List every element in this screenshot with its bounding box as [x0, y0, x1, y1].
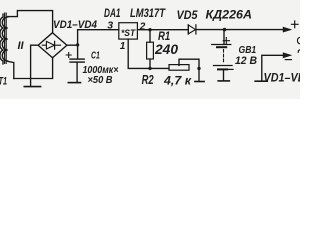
wire secondary top to bridge top vertex: [8, 11, 53, 33]
svg-text:240: 240: [154, 42, 179, 57]
node junction dot bridge+/C1: [76, 43, 79, 46]
wire VD5 cathode to output arrow: [196, 29, 289, 31]
right edge cut glyphs: [297, 38, 299, 53]
ground chassis R2: [195, 81, 204, 83]
battery polarity minus: [229, 68, 233, 70]
node junction dot battery tap: [223, 28, 227, 32]
wire bridge left vertex to ground: [31, 45, 38, 86]
svg-text:VD5: VD5: [177, 10, 199, 22]
svg-text:LM317T: LM317T: [130, 8, 166, 20]
resistor R2 wiper link: [179, 59, 199, 68]
regulator DA1 box: [119, 23, 138, 39]
svg-text:3: 3: [107, 19, 113, 31]
node junction dot R2 right: [197, 67, 200, 70]
wire R2 right to ground: [198, 68, 200, 81]
ground chassis battery: [218, 80, 229, 82]
svg-text:II: II: [18, 40, 25, 52]
label minus output: [285, 59, 291, 61]
ground chassis output minus: [255, 80, 267, 82]
bridge inner diode: [42, 41, 60, 49]
battery GB1 bottom cell: [214, 65, 233, 67]
transformer T1 primary winding: [0, 14, 3, 64]
wire pin1 adjust: [128, 39, 169, 68]
output minus wire from ground: [262, 55, 289, 81]
label plus output: [292, 21, 299, 28]
ground chassis left: [24, 86, 40, 88]
svg-text:12 В: 12 В: [235, 55, 257, 67]
node junction dot R1 bottom: [148, 67, 151, 70]
transformer T1 secondary winding II: [2, 17, 8, 61]
svg-text:*ST: *ST: [121, 28, 137, 38]
diode VD5: [188, 25, 196, 34]
output terminal arrow plus: [283, 27, 291, 32]
wire secondary bottom to bottom bus: [8, 61, 14, 78]
svg-text:R2: R2: [142, 73, 154, 87]
capacitor C1 plates: [70, 58, 84, 60]
capacitor C1 negative lead: [76, 62, 78, 82]
resistor R1 leads: [149, 30, 151, 69]
output terminal arrow minus: [283, 53, 291, 58]
svg-text:VD1–VD4: VD1–VD4: [53, 19, 97, 31]
svg-text:DA1: DA1: [104, 8, 121, 20]
ground chassis C1: [68, 82, 80, 84]
capacitor C1 positive lead: [77, 45, 79, 59]
svg-text:VD1–VD4: VD1–VD4: [264, 73, 301, 85]
svg-text:T1: T1: [0, 76, 7, 88]
resistor R2 body: [169, 65, 189, 71]
battery polarity plus: [223, 38, 229, 44]
battery dashed link: [223, 50, 225, 64]
transformer core: [5, 13, 7, 64]
svg-text:4,7 к: 4,7 к: [163, 75, 192, 87]
wire pin2 output rail: [137, 29, 188, 31]
svg-text:1: 1: [120, 41, 126, 52]
svg-text:КД226А: КД226А: [206, 9, 253, 21]
battery GB1 top cell: [212, 44, 231, 46]
capacitor C1 polarity plus: [66, 53, 71, 58]
battery GB1 lead to ground: [223, 69, 225, 80]
svg-text:С1: С1: [91, 50, 100, 62]
node junction dot R1 top: [148, 28, 151, 31]
svg-text:GB1: GB1: [239, 44, 257, 56]
battery GB1 lead: [223, 30, 225, 45]
bridge rectifier VD1-VD4 diamond: [38, 33, 67, 58]
svg-text:×50 В: ×50 В: [88, 75, 113, 86]
wire bottom bus: [14, 58, 53, 79]
resistor R1 body: [147, 42, 154, 59]
wire bridge right vertex to riser: [67, 30, 119, 46]
svg-text:2: 2: [139, 22, 146, 33]
